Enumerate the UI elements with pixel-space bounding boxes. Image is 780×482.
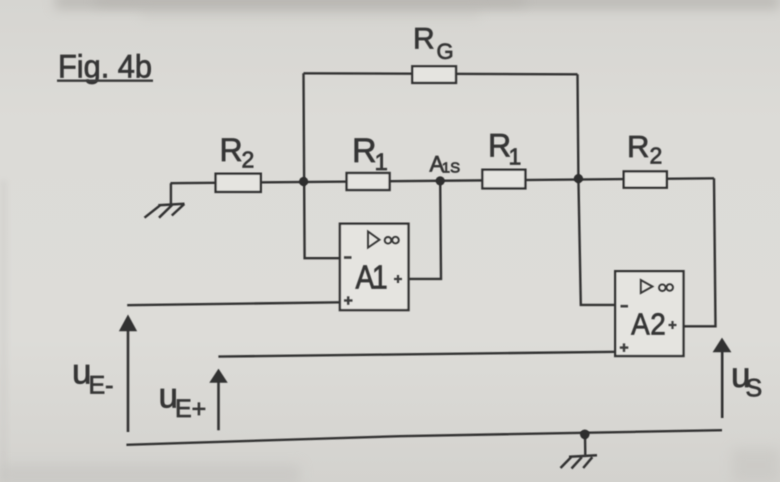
svg-text:R: R [413, 23, 435, 56]
svg-text:S: S [746, 375, 763, 403]
svg-text:E+: E+ [175, 395, 206, 423]
svg-text:E-: E- [89, 372, 114, 400]
svg-text:2: 2 [650, 307, 666, 342]
svg-text:G: G [437, 39, 454, 64]
svg-text:2: 2 [650, 143, 663, 169]
svg-text:R: R [627, 129, 649, 164]
svg-text:R: R [220, 132, 243, 168]
svg-text:1S: 1S [442, 160, 460, 177]
svg-text:Fig. 4b: Fig. 4b [58, 49, 152, 85]
svg-text:2: 2 [242, 147, 255, 173]
svg-text:A: A [631, 307, 650, 342]
svg-text:1: 1 [372, 259, 388, 297]
svg-text:1: 1 [509, 144, 522, 170]
svg-text:R: R [352, 132, 377, 170]
svg-text:1: 1 [375, 149, 388, 176]
